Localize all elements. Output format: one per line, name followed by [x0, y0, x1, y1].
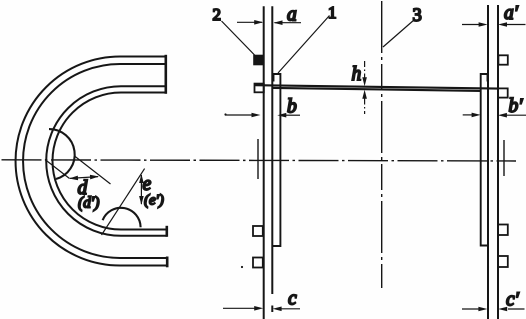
callout 3 leader	[383, 21, 413, 47]
right stack: open tab 3	[498, 225, 508, 236]
dimension a	[237, 21, 262, 23]
dimension b'	[463, 114, 472, 116]
left stack: short axis tick	[257, 139, 259, 179]
svg-text:c′: c′	[506, 290, 520, 311]
inner lamination band, outer edge	[46, 86, 167, 236]
dimension c	[223, 307, 255, 309]
left stack: right plate line	[271, 6, 273, 312]
left stack: open tab 4	[253, 258, 263, 268]
blister e dome arc	[103, 208, 141, 228]
right stack: short axis tick	[503, 140, 505, 176]
svg-text:b′: b′	[509, 96, 524, 117]
svg-text:1: 1	[328, 3, 337, 22]
blister d tangent line lower	[45, 160, 70, 179]
dimension h leader above	[364, 61, 366, 78]
horizontal center axis	[2, 160, 517, 161]
dimension a'	[462, 24, 479, 26]
left stack: filled tab (piece 2)	[254, 56, 263, 65]
dimension h arrows	[362, 77, 367, 99]
left stack: clamp bar 1	[273, 74, 281, 246]
svg-text:2: 2	[213, 5, 222, 24]
left stack: open tab 3	[253, 226, 263, 236]
dimension e double arrow	[140, 175, 142, 204]
svg-text:a′: a′	[504, 3, 519, 24]
inner lamination band, inner edge	[53, 93, 168, 230]
dimension c'	[462, 308, 479, 310]
dimension d double arrow	[70, 177, 98, 179]
left stack: open tab 2	[255, 84, 264, 93]
speck near bottom left of stack	[241, 266, 243, 268]
right stack: open tab 4	[498, 256, 508, 267]
connecting strip top edge	[255, 85, 498, 88]
top arm end cap	[165, 55, 168, 94]
right stack: clamp bar 1'	[481, 74, 489, 246]
blister d arc	[49, 129, 75, 179]
callout 2 leader	[222, 21, 256, 56]
blister e slant line	[102, 169, 145, 235]
left stack: left plate line	[263, 6, 265, 319]
connecting strip bottom edge	[273, 88, 481, 91]
right stack: open tab 2	[498, 88, 508, 97]
right stack: left plate line	[487, 5, 489, 319]
right stack: open tab 1	[498, 55, 507, 64]
bottom arm end cap, outer band	[166, 257, 169, 268]
right stack: right plate line	[497, 5, 499, 319]
svg-text:(e′): (e′)	[144, 193, 164, 209]
dimension b	[225, 114, 252, 116]
callout 1 leader	[278, 16, 330, 74]
outer lamination band, outer edge	[16, 57, 167, 266]
svg-text:c: c	[288, 289, 297, 310]
outer lamination band, inner edge	[23, 64, 167, 258]
svg-text:(d′): (d′)	[78, 195, 99, 212]
bottom arm end cap, inner band	[166, 226, 169, 237]
svg-text:3: 3	[413, 6, 422, 26]
svg-text:a: a	[287, 5, 297, 26]
blister d tangent line upper	[75, 156, 111, 184]
speck near top arm	[224, 113, 226, 115]
svg-text:h: h	[352, 64, 362, 85]
vertical center axis (net 3)	[381, 1, 383, 288]
svg-text:b: b	[287, 97, 297, 118]
dimension h leader below	[364, 99, 366, 115]
